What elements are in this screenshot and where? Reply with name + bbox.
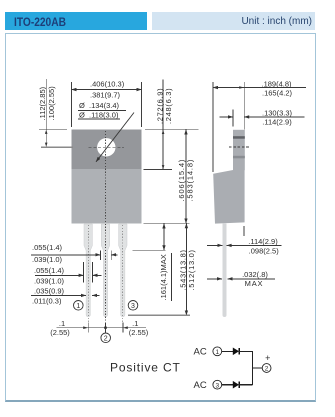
lead 1 center line: [87, 225, 89, 331]
unit box: [152, 12, 315, 30]
side view: hole center dashed line: [229, 146, 251, 148]
depth dimension line .189: [213, 87, 306, 89]
svg-text:AC: AC: [194, 380, 207, 391]
side view: lead: [223, 224, 227, 318]
diode D1: [233, 348, 239, 356]
tab height dimension line: [162, 80, 164, 170]
svg-text:Positive CT: Positive CT: [110, 360, 181, 374]
node 3 circle: [213, 380, 222, 389]
wire node1 to diode D1: [222, 350, 233, 352]
row1 dimension line: [31, 254, 100, 256]
svg-text:2: 2: [104, 336, 108, 343]
lead thickness arrow left: [207, 278, 222, 280]
svg-text:.512(13.0): .512(13.0): [187, 249, 196, 290]
extension line package top left: [39, 128, 67, 130]
extension line package top right: [145, 128, 199, 130]
lead 3: [119, 224, 127, 317]
svg-text:.114(2.9): .114(2.9): [248, 237, 278, 246]
side view: dark band: [233, 136, 245, 139]
hole leader line: [96, 113, 134, 162]
svg-text:.098(2.5): .098(2.5): [249, 246, 280, 255]
wire node3 to diode D2: [222, 384, 233, 386]
pin 1 callout: [74, 301, 84, 311]
wire tap to node 2: [252, 367, 262, 369]
svg-text:.248(6.3): .248(6.3): [164, 88, 173, 124]
svg-text:.406(10.3): .406(10.3): [90, 80, 125, 89]
mounting hole: [97, 138, 115, 156]
extension line body bottom right: [144, 222, 190, 224]
bus wire: [251, 351, 253, 385]
svg-text:.039(1.0): .039(1.0): [34, 276, 65, 285]
lead 3 center line: [122, 225, 124, 331]
svg-text:.100(2.55): .100(2.55): [47, 86, 56, 121]
node 1 circle: [213, 347, 222, 356]
svg-text:1: 1: [76, 303, 80, 310]
svg-text:+: +: [265, 353, 270, 363]
svg-text:MAX: MAX: [245, 279, 264, 288]
node 2 circle: [262, 364, 271, 373]
lead thickness dimension line .032: [228, 278, 275, 280]
left dimension line: [45, 79, 47, 147]
width dimension line .406: [72, 89, 142, 91]
diode D2: [233, 381, 239, 389]
title bar ITO-220AB: [5, 12, 147, 30]
svg-text:.189(4.8): .189(4.8): [261, 79, 292, 88]
svg-text:.112(2.85): .112(2.85): [38, 86, 47, 120]
svg-text:2: 2: [265, 366, 269, 373]
wire D2 to bus: [239, 384, 252, 386]
extension line shoulder end: [133, 249, 166, 251]
pin 2 callout: [101, 333, 111, 343]
svg-text:(2.55): (2.55): [129, 328, 149, 337]
svg-text:.161(4.1)MAX: .161(4.1)MAX: [159, 254, 168, 300]
lead length dim .543 line: [185, 223, 187, 315]
front view: tab (dark gray upper body): [72, 130, 142, 170]
svg-text:.583(14.8): .583(14.8): [186, 159, 195, 202]
width dim extension lines: [71, 82, 73, 127]
lead 1: [84, 224, 92, 317]
svg-text:.055(1.4): .055(1.4): [32, 243, 63, 252]
svg-text:.035(0.9): .035(0.9): [34, 287, 65, 296]
lead offset arrow left: [207, 244, 222, 246]
hole horizontal center line: [89, 146, 125, 148]
svg-text:.1: .1: [132, 319, 138, 328]
lead 2 / hole vertical center line: [105, 131, 107, 331]
lead offset extension line: [243, 226, 245, 236]
extension line lead tips: [128, 314, 190, 316]
side view: molded body: [213, 170, 244, 224]
lead 2: [101, 224, 109, 317]
svg-text:(2.55): (2.55): [50, 328, 70, 337]
row2 dimension line: [35, 274, 84, 276]
svg-text:.055(1.4): .055(1.4): [34, 266, 65, 275]
svg-text:Ø .118(3.0): Ø .118(3.0): [79, 111, 119, 120]
row3 dimension line: [31, 294, 86, 296]
tab thickness arrow left: [220, 116, 234, 118]
svg-text:.114(2.9): .114(2.9): [262, 117, 292, 126]
svg-text:1: 1: [215, 349, 219, 356]
lead shoulder dim .161(4.1)MAX line: [163, 224, 165, 251]
pin 3 callout: [128, 301, 138, 311]
depth dim extension right: [243, 82, 245, 129]
svg-text:.039(1.0): .039(1.0): [32, 255, 63, 264]
svg-text:3: 3: [131, 303, 135, 310]
front view: molded body (lighter gray): [72, 169, 142, 224]
svg-text:.1: .1: [59, 319, 65, 328]
svg-text:.130(3.3): .130(3.3): [262, 108, 293, 117]
svg-text:.011(0.3): .011(0.3): [32, 296, 62, 305]
depth dim extension left: [212, 82, 214, 172]
svg-text:AC: AC: [194, 347, 207, 358]
side view: tab column: [233, 130, 245, 170]
tab thickness dimension line .130: [244, 116, 305, 118]
svg-text:.165(4.2): .165(4.2): [262, 89, 293, 98]
side view: light band: [233, 156, 245, 159]
extension line tab bottom right: [144, 169, 173, 171]
svg-text:3: 3: [215, 382, 219, 389]
extension line hole center left: [41, 146, 73, 148]
tab face extension tick: [232, 110, 234, 127]
body height dimension line .606: [185, 130, 187, 224]
pitch dimension line: [57, 327, 147, 329]
wire D1 to bus: [239, 350, 252, 352]
svg-text:Ø .134(3.4): Ø .134(3.4): [79, 101, 120, 110]
svg-text:.381(9.7): .381(9.7): [90, 91, 121, 100]
lead offset dimension line .114: [227, 244, 282, 246]
